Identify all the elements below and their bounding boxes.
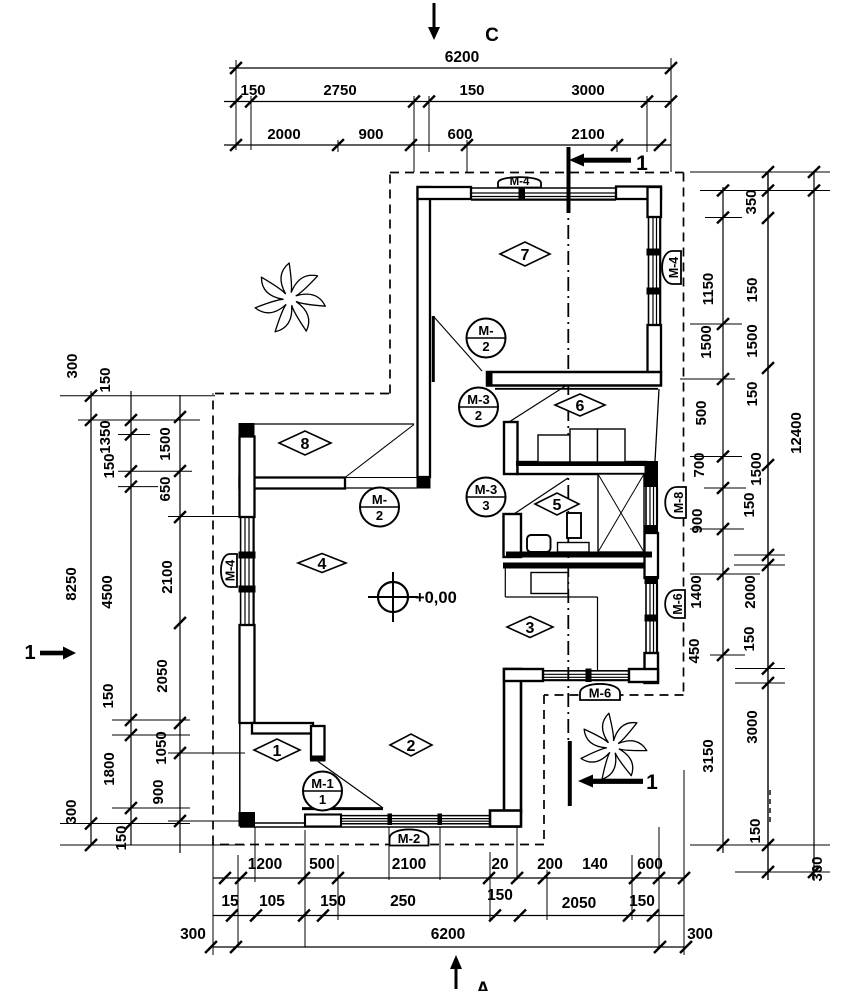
svg-text:900: 900 <box>358 126 383 143</box>
bottom dim line1 <box>213 877 684 879</box>
wall hall left top cap <box>239 423 255 437</box>
tag M-3-2 <box>459 388 498 427</box>
svg-text:M-4: M-4 <box>224 560 238 582</box>
window M-8 bottom cap <box>645 525 659 533</box>
wall M-8 top cap <box>645 461 659 487</box>
svg-text:1: 1 <box>24 642 35 664</box>
svg-text:2: 2 <box>475 408 482 423</box>
svg-text:3: 3 <box>526 620 535 637</box>
wall room7 bottom under-line <box>495 388 658 390</box>
svg-text:150: 150 <box>100 683 117 708</box>
svg-text:600: 600 <box>447 126 472 143</box>
svg-text:2: 2 <box>407 738 416 755</box>
dashed boundary <box>215 393 390 395</box>
svg-text:105: 105 <box>259 893 285 910</box>
room tag 3 <box>507 617 553 638</box>
svg-text:300: 300 <box>809 856 826 881</box>
svg-text:1500: 1500 <box>744 324 761 357</box>
svg-text:150: 150 <box>747 818 764 843</box>
svg-text:300: 300 <box>180 926 206 943</box>
tag M-2 room7 <box>467 319 506 358</box>
bottom dim line2 <box>213 915 684 917</box>
room tag 2 <box>390 734 432 756</box>
svg-text:2000: 2000 <box>742 575 759 608</box>
svg-text:M-3: M-3 <box>475 482 497 497</box>
wall room7 bottom <box>487 372 661 386</box>
wall right wing bottom corner <box>645 653 659 683</box>
svg-text:M-: M- <box>478 323 493 338</box>
right ticks line1 <box>717 185 729 197</box>
wall right wing mid <box>645 533 659 578</box>
svg-text:M-4: M-4 <box>510 176 530 188</box>
svg-text:1500: 1500 <box>698 325 715 358</box>
svg-text:150: 150 <box>487 887 513 904</box>
svg-text:15: 15 <box>221 893 239 910</box>
svg-text:300: 300 <box>64 353 81 378</box>
left ticks line3 <box>174 411 186 423</box>
wall room3 top band <box>503 563 645 569</box>
svg-text:350: 350 <box>743 189 760 214</box>
svg-text:20: 20 <box>491 856 508 873</box>
window M-6 right top cap <box>645 576 659 584</box>
section line 1 top segment <box>567 147 571 213</box>
left dim line2 <box>130 391 132 845</box>
south arrow A head <box>450 955 462 969</box>
wall room7 bottom left cap <box>486 371 493 386</box>
left dim line3 <box>179 395 181 853</box>
svg-text:1: 1 <box>636 152 648 175</box>
svg-text:1: 1 <box>273 743 282 760</box>
section line 1 bottom segment <box>568 741 572 806</box>
bench room5 <box>558 543 590 553</box>
room tag 4 <box>298 554 346 573</box>
svg-text:M-3: M-3 <box>467 392 489 407</box>
bottom ticks row2 <box>226 910 238 922</box>
section arrow 1 left <box>40 651 64 656</box>
svg-text:150: 150 <box>97 367 114 392</box>
svg-text:250: 250 <box>390 893 416 910</box>
svg-text:1350: 1350 <box>97 420 114 453</box>
wall room1 vertical cap <box>310 756 326 762</box>
svg-text:1150: 1150 <box>700 273 717 306</box>
right extension lines <box>690 171 830 173</box>
window bottom right band <box>543 670 629 672</box>
window M-2 bottom band <box>341 815 490 817</box>
window M-4 top band <box>471 187 616 189</box>
north arrow C head <box>428 27 440 40</box>
svg-text:3150: 3150 <box>700 739 717 772</box>
top extension lines <box>235 60 237 150</box>
north arrow C shaft <box>433 3 436 29</box>
svg-text:M-: M- <box>372 492 387 507</box>
porch room1 bottom line <box>255 822 306 824</box>
sink room5 <box>527 535 551 552</box>
bottom ticks row3 <box>205 941 217 953</box>
svg-text:2: 2 <box>376 508 383 523</box>
edge line right of room6 <box>655 389 659 461</box>
left ticks line2 <box>125 414 137 426</box>
svg-text:150: 150 <box>629 893 655 910</box>
right dim line1 <box>722 187 724 853</box>
svg-text:2100: 2100 <box>159 560 176 593</box>
wall hall left lower <box>240 625 255 723</box>
tag M-6 right <box>665 590 685 618</box>
top dim line row2 <box>224 101 671 103</box>
wall room1 vertical <box>311 726 325 759</box>
wall room6 bottom <box>518 462 647 474</box>
section arrow 1 bottom <box>578 775 593 788</box>
svg-text:8250: 8250 <box>63 567 80 600</box>
window M-4 left band <box>240 517 242 625</box>
svg-text:500: 500 <box>693 400 710 425</box>
top ticks row3 <box>230 139 242 151</box>
svg-text:150: 150 <box>240 82 265 99</box>
wall hall right <box>504 669 521 812</box>
south arrow A shaft <box>455 967 458 989</box>
door room5 swing <box>514 478 568 514</box>
svg-text:300: 300 <box>63 799 80 824</box>
svg-text:2100: 2100 <box>392 856 426 873</box>
window M-4 top mullion <box>519 186 526 201</box>
plant bottom right <box>581 713 647 779</box>
svg-text:2: 2 <box>482 339 489 354</box>
svg-text:6200: 6200 <box>431 926 465 943</box>
room tag 1 <box>254 739 300 761</box>
plant top left <box>255 263 325 332</box>
wall room7 top left segment <box>418 187 472 199</box>
svg-text:2100: 2100 <box>571 126 604 143</box>
svg-text:1500: 1500 <box>157 427 174 460</box>
top ticks row1 <box>230 62 242 74</box>
terrace room8 diagonal <box>345 425 414 478</box>
svg-text:150: 150 <box>744 277 761 302</box>
svg-text:A: A <box>476 979 490 991</box>
svg-text:8: 8 <box>301 436 310 453</box>
svg-text:+0,00: +0,00 <box>415 589 457 607</box>
shower room5 <box>598 474 644 552</box>
svg-text:M-2: M-2 <box>398 831 420 846</box>
tag M-4 right <box>662 251 681 284</box>
svg-text:140: 140 <box>582 856 608 873</box>
svg-text:1: 1 <box>646 771 658 794</box>
svg-text:450: 450 <box>686 638 703 663</box>
tag M-8 right <box>665 487 686 518</box>
left dim line1 <box>90 391 92 845</box>
wall right wing bottom left <box>504 669 543 681</box>
room3 thin boundary <box>504 566 506 597</box>
svg-text:4: 4 <box>318 556 327 573</box>
svg-text:700: 700 <box>691 452 708 477</box>
wall right wing bottom right <box>629 669 658 682</box>
wall room7 right lower <box>648 325 662 373</box>
svg-text:M-4: M-4 <box>667 257 681 279</box>
svg-text:C: C <box>485 25 499 46</box>
svg-text:6: 6 <box>576 398 585 415</box>
tag M-4 top <box>498 177 541 187</box>
svg-text:1050: 1050 <box>153 731 170 764</box>
svg-text:2050: 2050 <box>562 895 596 912</box>
door room6 swing <box>509 385 567 422</box>
window M-2 bottom mullions <box>388 814 393 826</box>
svg-text:900: 900 <box>150 779 167 804</box>
svg-text:12400: 12400 <box>788 412 805 454</box>
counter room6 a <box>538 435 570 462</box>
porch room1 left line <box>239 722 241 812</box>
wall hall right jog <box>490 811 521 827</box>
svg-text:150: 150 <box>744 381 761 406</box>
tag M-2 bottom <box>390 829 429 845</box>
right ticks line2 <box>762 166 774 178</box>
svg-text:2050: 2050 <box>154 659 171 692</box>
svg-text:650: 650 <box>157 476 174 501</box>
svg-text:1800: 1800 <box>101 752 118 785</box>
toilet room5 <box>567 513 581 538</box>
svg-text:150: 150 <box>113 825 130 850</box>
wall below room8 <box>240 478 346 489</box>
terrace room8 lower line <box>345 487 417 489</box>
tag M-1 <box>303 772 342 811</box>
window M-6 right mullion <box>645 615 659 622</box>
window M-8 band <box>645 487 647 525</box>
tag M-6 bottom <box>580 684 620 700</box>
svg-text:150: 150 <box>320 893 346 910</box>
door M-2 bottom rect <box>305 815 341 827</box>
door M-1 leaf <box>302 807 383 810</box>
wall room7 right upper <box>648 187 662 217</box>
wall room5 bottom band1 <box>506 552 652 558</box>
svg-text:M-8: M-8 <box>672 492 686 514</box>
left extension lines <box>60 395 215 397</box>
section center line <box>567 199 569 745</box>
window M-4 right mullions <box>647 249 661 256</box>
window M-4 left mullions <box>239 552 256 559</box>
wall hall left upper <box>240 437 255 518</box>
svg-text:2000: 2000 <box>267 126 300 143</box>
tag M-2 room4 <box>360 488 399 527</box>
svg-text:150: 150 <box>741 492 758 517</box>
tag M-4 left <box>221 554 237 587</box>
svg-text:3000: 3000 <box>744 710 761 743</box>
svg-text:300: 300 <box>687 926 713 943</box>
svg-text:1400: 1400 <box>688 575 705 608</box>
counter room6 b <box>570 429 598 462</box>
terrace room8 top line <box>240 423 414 425</box>
bottom extension lines <box>212 845 214 955</box>
elevation marker circle <box>378 582 408 612</box>
bottom ticks row1 <box>219 872 231 884</box>
section arrow 1 top <box>569 154 584 167</box>
window bottom right mullion <box>586 669 592 683</box>
left ticks line1 <box>85 390 97 402</box>
svg-text:3000: 3000 <box>571 82 604 99</box>
right dim line2 <box>767 172 769 880</box>
bottom dim line3 <box>213 946 684 948</box>
svg-text:150: 150 <box>459 82 484 99</box>
wall room7 left <box>418 187 431 477</box>
door M-1 swing <box>318 762 383 809</box>
tag M-3-3 <box>467 478 506 517</box>
svg-text:900: 900 <box>689 508 706 533</box>
wall room1 horizontal <box>252 723 313 734</box>
counter room3 <box>531 573 568 594</box>
wall room7 left bottom cap <box>417 476 431 489</box>
right ticks line3 <box>808 166 820 178</box>
svg-text:600: 600 <box>637 856 663 873</box>
svg-text:6200: 6200 <box>445 49 479 66</box>
top dim line 6200 <box>229 67 671 69</box>
top dim line row3 <box>224 144 671 146</box>
svg-text:4500: 4500 <box>99 575 116 608</box>
wall room6 stub <box>504 422 518 474</box>
elevation marker cross <box>392 572 394 622</box>
svg-text:500: 500 <box>309 856 335 873</box>
wall hall bottom corner post <box>239 812 256 827</box>
svg-text:200: 200 <box>537 856 563 873</box>
svg-text:M-6: M-6 <box>589 686 611 701</box>
room tag 6 <box>555 394 605 416</box>
svg-text:3: 3 <box>482 498 489 513</box>
wall room5 stub <box>504 514 522 557</box>
right dim line3 <box>813 172 815 880</box>
room tag 7 <box>500 242 550 266</box>
svg-text:5: 5 <box>553 497 562 514</box>
room tag 8 <box>279 431 331 455</box>
svg-text:150: 150 <box>101 453 118 478</box>
window M-6 right band <box>645 584 647 653</box>
top ticks row2 <box>230 96 242 108</box>
right dashed stub <box>769 790 771 822</box>
door M-2 room7 swing <box>434 317 482 371</box>
svg-text:1: 1 <box>319 792 326 807</box>
wall hall bottom edge line <box>240 826 520 828</box>
door M-2 room7 leaf <box>432 316 435 382</box>
counter room6 c <box>598 429 626 462</box>
svg-text:2750: 2750 <box>323 82 356 99</box>
window M-4 right band <box>648 217 650 325</box>
svg-text:150: 150 <box>741 626 758 651</box>
svg-text:M-1: M-1 <box>311 776 333 791</box>
svg-text:M-6: M-6 <box>671 593 685 615</box>
wall room7 top right segment <box>616 187 661 200</box>
svg-text:1200: 1200 <box>248 856 282 873</box>
svg-text:7: 7 <box>521 247 530 264</box>
svg-text:1500: 1500 <box>748 452 765 485</box>
room tag 5 <box>535 493 579 515</box>
